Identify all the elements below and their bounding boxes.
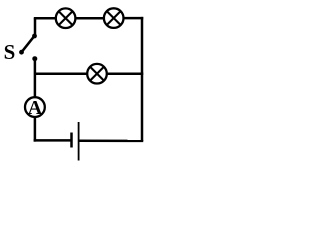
- battery negative plate (short thick bar): [70, 133, 73, 148]
- switch S blade (open): [22, 36, 35, 52]
- lamp L3 (middle branch, circle with X): [87, 64, 107, 84]
- wire: middle branch from left vertical to lamp L3: [35, 72, 88, 75]
- wire: bottom wire from battery positive plate to bottom-right corner: [79, 139, 144, 142]
- lamp L1 (top-left, circle with X): [56, 8, 76, 28]
- switch S blade end dot: [19, 50, 24, 55]
- wire: middle branch from lamp L3 to right vertical: [107, 72, 143, 75]
- battery positive plate (long thin bar): [78, 122, 80, 161]
- wire: top wire between lamp L1 and lamp L2: [75, 17, 104, 20]
- wire: left vertical from ammeter down to bottom-left corner: [35, 117, 36, 141]
- wire: left vertical from switch bottom terminal to ammeter: [34, 59, 37, 98]
- wire: top-left vertical from top wire corner down to switch top contact: [34, 18, 37, 36]
- wire: right vertical from top-right corner down to bottom-right corner: [141, 17, 144, 141]
- switch S bottom terminal dot / junction node: [32, 56, 37, 61]
- wire: bottom wire from bottom-left corner to battery negative plate: [34, 139, 71, 142]
- wire: top wire from corner to lamp L1: [34, 17, 56, 20]
- wire: top wire from lamp L2 to top-right corner: [124, 17, 144, 20]
- ammeter A1 circle: [25, 97, 45, 117]
- switch S top contact dot: [32, 34, 37, 39]
- lamp L2 (top-right, circle with X): [104, 8, 124, 28]
- svg-text:S: S: [4, 40, 16, 64]
- svg-text:A: A: [28, 97, 43, 119]
